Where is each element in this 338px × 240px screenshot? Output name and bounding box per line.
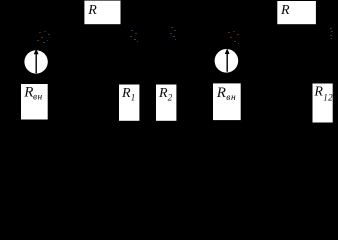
svg-text:R: R [280, 3, 290, 18]
svg-text:R: R [121, 86, 131, 101]
svg-text:R: R [313, 85, 323, 100]
svg-text:R: R [23, 85, 33, 101]
resistor Rвн (right internal resistance box) [213, 83, 241, 120]
resistor Rвн (left internal resistance box) [21, 84, 48, 120]
current source J1 (left circle with arrow) [24, 49, 47, 74]
resistor R (top right box) [277, 1, 316, 24]
node label a (remnants left of R1) [130, 30, 138, 42]
node label J2 (remnants above right source) [228, 31, 239, 44]
current source J2 (right circle with arrow) [215, 48, 239, 72]
resistor R1 [119, 85, 139, 121]
svg-text:2: 2 [168, 93, 173, 103]
svg-text:R: R [87, 3, 97, 18]
resistor R12 [313, 84, 334, 123]
svg-text:12: 12 [323, 92, 333, 102]
svg-text:R: R [216, 85, 226, 101]
svg-text:1: 1 [131, 93, 136, 103]
resistor R2 [156, 85, 176, 121]
node label b (remnants left of R2 column) [170, 27, 176, 40]
svg-text:вн: вн [33, 93, 43, 103]
svg-text:R: R [158, 86, 168, 101]
node label в (remnants at right edge) [330, 28, 333, 39]
resistor R (generator box, top left) [84, 1, 120, 25]
node label J1 (antialiasing remnants near left source) [37, 31, 50, 43]
svg-text:вн: вн [226, 93, 236, 103]
